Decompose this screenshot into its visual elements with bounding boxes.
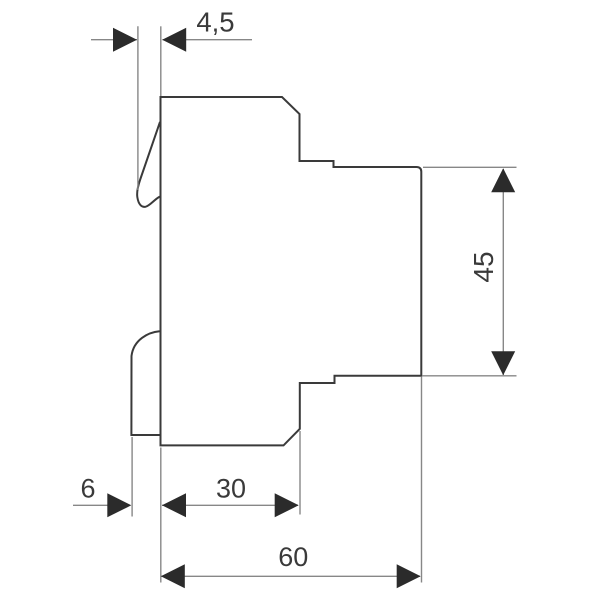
svg-text:45: 45 (468, 251, 499, 282)
svg-text:30: 30 (216, 474, 246, 504)
dimension line 4,5 right tail (163, 39, 253, 41)
extension line 30 right (x=300) (299, 431, 301, 515)
dimension line 6 tail (73, 504, 130, 506)
dimension line 60 (161, 575, 420, 577)
extension line 60 right (x=421.5) (421, 377, 423, 583)
extension line 6 (x=131.4) (131, 437, 133, 517)
svg-text:6: 6 (80, 474, 95, 504)
extension line 45 top (y=167.3) (423, 166, 517, 168)
arrowhead 30 left (points left) (162, 493, 186, 517)
svg-text:4,5: 4,5 (196, 7, 234, 38)
svg-text:60: 60 (278, 542, 308, 572)
extension line 45 bottom (y=375.8) (422, 375, 516, 377)
arrowhead 45 top (points up) (491, 168, 515, 192)
device body outline (161, 97, 422, 445)
extension line right of 4,5 (x=160.8) (160, 26, 162, 96)
dimension line 45 vertical (502, 169, 504, 375)
dimension line 4,5 left tail (91, 39, 137, 41)
arrowhead 30 right (points right) (275, 493, 299, 517)
arrowhead 4,5 left (points right) (113, 28, 137, 52)
extension line left of 4,5 (x=137) (137, 26, 139, 190)
bottom DIN-rail clip (131, 331, 159, 435)
arrowhead 60 right (points right) (397, 564, 421, 588)
arrowhead 45 bottom (points down) (491, 351, 515, 375)
arrowhead 6 (points right) (107, 493, 131, 517)
dimension line 30 (162, 504, 298, 506)
top DIN-rail clip hook (137, 123, 160, 207)
extension line shared 30/60 left (x=160.8) (160, 448, 162, 583)
arrowhead 60 left (points left) (161, 564, 185, 588)
arrowhead 4,5 right (points left) (162, 28, 186, 52)
